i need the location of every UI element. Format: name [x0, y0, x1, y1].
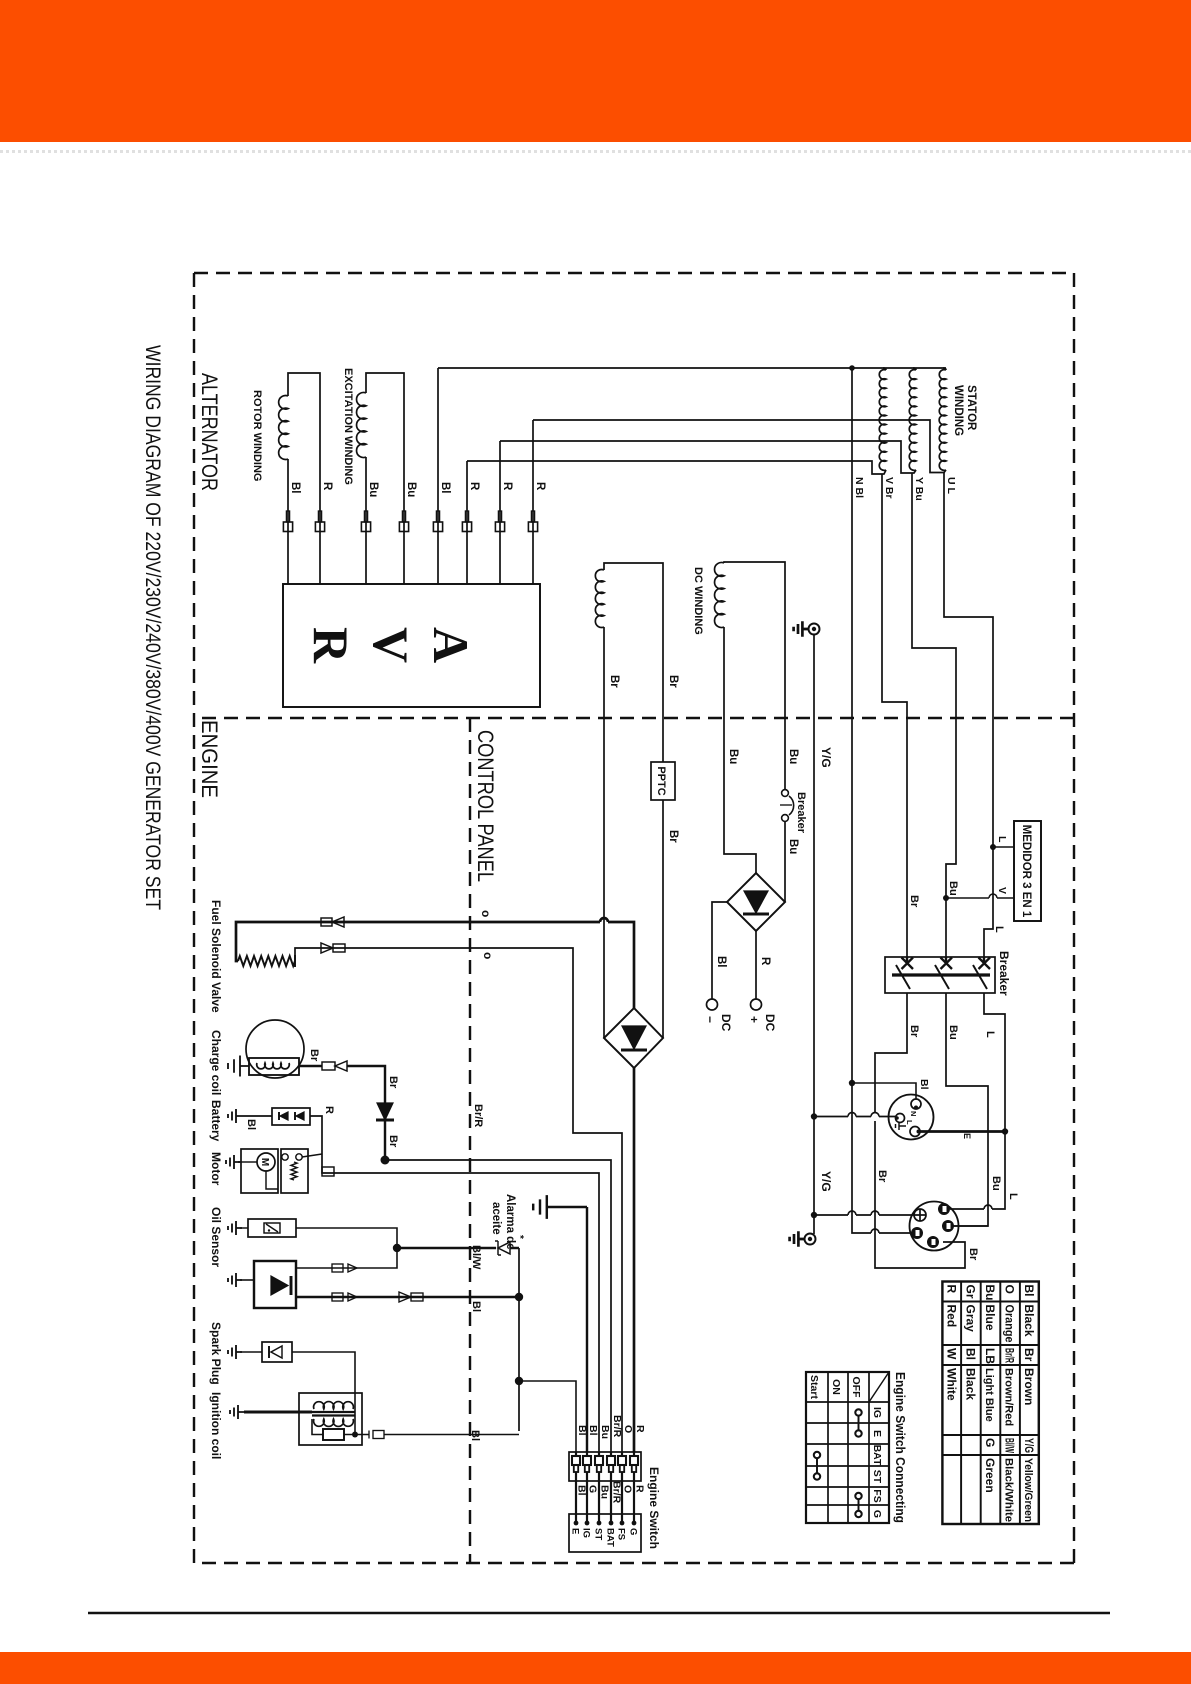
wire DC+ (R) [755, 931, 757, 999]
svg-text:Br: Br [667, 675, 679, 688]
svg-text:Black: Black [1022, 1305, 1036, 1337]
stator winding coil V (v=158) [909, 370, 916, 471]
wire: coil W sense tap to AVR (R v=607) [467, 461, 886, 474]
svg-text:Bl: Bl [439, 482, 451, 494]
terminal on AVR wire v=541 [531, 511, 534, 522]
wire Br: pole1 to 4-pin socket pin [875, 993, 965, 1268]
svg-text:U L: U L [945, 477, 957, 495]
ground terminal (top) [809, 624, 820, 635]
fuel solenoid valve coil [238, 956, 295, 966]
wire alert top to oil node [296, 1248, 397, 1268]
stator winding coil W (v=188) [879, 370, 886, 471]
terminal on AVR wire v=636 [436, 511, 439, 522]
svg-text:EXCITATION WINDING: EXCITATION WINDING [342, 368, 354, 485]
spark plug box [262, 1342, 292, 1362]
svg-text:WINDING: WINDING [952, 385, 964, 436]
junction dot neutral/N-line [849, 365, 855, 371]
svg-text:Y/G: Y/G [1022, 1438, 1036, 1453]
svg-text:R: R [468, 482, 480, 491]
svg-text:A: A [423, 627, 479, 663]
svg-text:Bu: Bu [599, 1485, 611, 1499]
svg-text:V: V [996, 887, 1008, 894]
link OFF IG-E [858, 1413, 860, 1434]
svg-text:L: L [905, 1120, 914, 1125]
wire AVR sense Bl v=636 [437, 368, 439, 584]
svg-text:aceite: aceite [490, 1202, 502, 1235]
svg-text:Gr: Gr [963, 1285, 977, 1299]
svg-text:Br/R: Br/R [611, 1415, 623, 1438]
svg-text:Bu: Bu [787, 839, 799, 854]
svg-text:O: O [1003, 1285, 1017, 1294]
pin E (middle) [896, 1114, 905, 1123]
wire AVR sense R v=607 [466, 461, 468, 584]
svg-text:M: M [259, 1158, 270, 1166]
svg-text:Bu: Bu [947, 881, 959, 896]
svg-text:ON: ON [830, 1379, 842, 1395]
svg-text:ALTERNATOR: ALTERNATOR [197, 373, 222, 491]
starter relay box [281, 1149, 308, 1193]
svg-text:E: E [871, 1430, 883, 1437]
svg-text:ST: ST [871, 1470, 883, 1484]
svg-text:ENGINE: ENGINE [197, 720, 222, 798]
svg-text:Br: Br [876, 1170, 888, 1183]
svg-text:L: L [984, 1031, 996, 1038]
orange header bar [0, 0, 1191, 142]
svg-text:WIRING DIAGRAM OF 220V/230V: WIRING DIAGRAM OF 220V/230V/240V/380V/40… [141, 345, 164, 910]
3-pin AC socket [889, 1095, 934, 1140]
pin 2 (N) [938, 1203, 950, 1215]
wire oil sensor to node [296, 1228, 397, 1248]
engine switch block 2 [569, 1514, 641, 1552]
svg-text:L: L [993, 926, 1005, 933]
svg-text:R: R [759, 957, 771, 966]
svg-text:FS: FS [871, 1489, 883, 1502]
DC winding [715, 563, 724, 628]
svg-text:Bu: Bu [727, 749, 739, 764]
pin 3 [942, 1220, 954, 1232]
junction dot N-line / 3-pin socket branch [849, 1080, 855, 1086]
wire Br/R to engine switch [385, 1160, 611, 1452]
terminal BAT [609, 1521, 614, 1526]
svg-text:R: R [534, 482, 546, 491]
svg-text:CONTROL PANEL: CONTROL PANEL [473, 730, 498, 882]
ground charge coil [228, 1056, 249, 1077]
junction dot Y/G to 4-pin socket [811, 1212, 817, 1218]
transformer core [312, 1411, 355, 1413]
svg-text:Bl/W: Bl/W [1003, 1438, 1017, 1453]
svg-text:Br: Br [608, 675, 620, 688]
wire Br from charge coil through diode to junction [299, 1066, 385, 1160]
svg-text:R: R [323, 1106, 335, 1114]
wire L to pin (thick) [920, 1130, 1005, 1133]
svg-text:Orange: Orange [1003, 1305, 1017, 1343]
op-amp AVR box [283, 584, 540, 707]
pin L [910, 1127, 920, 1137]
svg-text:Bu: Bu [787, 749, 799, 764]
wire Bu: pole2 to 4-pin socket pin [946, 993, 988, 1226]
svg-text:L: L [1007, 1193, 1019, 1200]
svg-text:MEDIDOR 3 EN 1: MEDIDOR 3 EN 1 [1020, 825, 1032, 918]
svg-text:G: G [983, 1438, 997, 1447]
ground terminal (bottom) [805, 1234, 816, 1245]
svg-text:E: E [962, 1133, 972, 1139]
svg-text:Motor: Motor [209, 1152, 223, 1186]
svg-text:Bu: Bu [599, 1425, 611, 1439]
svg-text:White: White [944, 1368, 958, 1401]
svg-text:Bu: Bu [983, 1285, 997, 1301]
svg-text:Y/G: Y/G [819, 1171, 833, 1192]
svg-text:V: V [363, 627, 419, 663]
junction dot Br [381, 1156, 390, 1165]
svg-text:Br/R: Br/R [472, 1104, 484, 1127]
svg-text:Brown: Brown [1022, 1368, 1036, 1405]
svg-text:Fuel Solenoid Valve: Fuel Solenoid Valve [209, 900, 223, 1013]
svg-text:Engine Switch: Engine Switch [647, 1467, 661, 1549]
svg-text:Brown/Red: Brown/Red [1003, 1368, 1015, 1426]
svg-text:Green: Green [983, 1458, 997, 1493]
ground oil alert [240, 1279, 254, 1281]
wires between connector blocks [633, 1481, 635, 1523]
svg-text:OFF: OFF [850, 1377, 862, 1399]
wire Br upper through PPTC to rectifier top corner [662, 800, 664, 1038]
svg-text:R: R [944, 1285, 958, 1294]
svg-text:E: E [570, 1528, 581, 1534]
svg-text:Light Blue: Light Blue [983, 1368, 995, 1422]
svg-text:Breaker: Breaker [997, 951, 1011, 996]
svg-text:Bl: Bl [470, 1301, 482, 1312]
ground oil sensor [240, 1227, 248, 1229]
wire R (DC out) to engine switch [633, 1068, 636, 1452]
svg-text:Y/G: Y/G [819, 747, 833, 768]
connector pair on row2 [333, 944, 345, 952]
svg-text:Bl: Bl [963, 1348, 977, 1360]
svg-text:Br: Br [1022, 1348, 1036, 1362]
svg-text:Bu: Bu [367, 482, 379, 497]
svg-text:Black: Black [963, 1368, 977, 1400]
wire node up through zener [397, 1247, 519, 1249]
svg-text:Bl/W: Bl/W [470, 1245, 482, 1270]
svg-text:Bl: Bl [1022, 1285, 1036, 1297]
svg-text:R: R [303, 627, 359, 664]
wire: coil U sense tap to AVR (R v=541) [533, 420, 946, 473]
svg-text:Bl: Bl [469, 1430, 481, 1441]
svg-text:N Bl: N Bl [853, 477, 865, 498]
svg-text:IG: IG [581, 1528, 592, 1538]
svg-text:Bu: Bu [947, 1025, 959, 1040]
excitation winding [357, 393, 366, 458]
section divider alternator/rest [194, 717, 1074, 719]
svg-text:R: R [501, 482, 513, 491]
svg-text:o: o [481, 952, 495, 959]
svg-text:−: − [703, 1016, 717, 1023]
wire Br lower: winding to rectifier bottom corner [603, 627, 605, 1038]
svg-text:V Br: V Br [883, 477, 895, 499]
breaker pole v=90 [983, 957, 985, 962]
terminal ST [597, 1521, 602, 1526]
svg-text:Bu: Bu [990, 1176, 1002, 1191]
breaker pole v=128 [945, 957, 947, 962]
starter motor box [241, 1149, 278, 1193]
charge coil flywheel [246, 1020, 304, 1078]
pin block1 Bl [575, 1452, 577, 1456]
section divider control-panel/engine [469, 718, 471, 1563]
svg-text:Black/White: Black/White [1003, 1458, 1015, 1522]
svg-text:Bl: Bl [715, 956, 727, 968]
svg-text:Bl: Bl [918, 1079, 930, 1090]
svg-text:ST: ST [593, 1528, 604, 1540]
wire to engine switch E (Bl) [519, 1381, 576, 1452]
wire alert bottom (Bl) to node dot2 [296, 1296, 519, 1298]
rotor winding [279, 396, 288, 460]
footer rule [88, 1612, 1110, 1614]
svg-text:FS: FS [616, 1528, 627, 1540]
pin block1 Bl [586, 1452, 588, 1456]
MEDIDOR terminal V stub (hops over L line) [946, 897, 1014, 899]
wire relay to R line [302, 1154, 322, 1157]
link OFF FS-G [858, 1496, 860, 1514]
oil alert diode box [254, 1261, 296, 1308]
PPTC resistor box [651, 762, 675, 800]
svg-text:STATOR: STATOR [965, 385, 977, 431]
svg-text:+: + [747, 1016, 761, 1023]
junction dot oil node [393, 1244, 401, 1252]
ground motor [241, 1161, 257, 1163]
pin block1 O [621, 1452, 623, 1456]
junction dot L / 3-pin socket [1002, 1128, 1008, 1134]
svg-text:Alarma de: Alarma de [504, 1194, 516, 1250]
pin 5 [911, 1227, 923, 1239]
svg-text:Bu: Bu [405, 482, 417, 497]
svg-text:LB: LB [983, 1348, 997, 1364]
wire earth branch to 3-pin socket (hops over Br & N lines) [814, 1116, 897, 1118]
diode bridge rectifier (charge circuit) [604, 1008, 663, 1068]
charge winding [595, 570, 604, 628]
svg-text:Br: Br [308, 1049, 320, 1062]
pin 4 [927, 1236, 939, 1248]
pin N [911, 1099, 921, 1109]
terminal G [632, 1521, 637, 1526]
svg-text:Start: Start [808, 1375, 820, 1399]
wire R battery to engine switch [310, 1116, 599, 1452]
pin block1 Bu [598, 1452, 600, 1456]
DC breaker (small switch) [782, 790, 789, 797]
terminal on AVR wire v=607 [465, 511, 468, 522]
svg-text:Br: Br [967, 1248, 979, 1261]
wire pin3 up to Bu line [954, 1225, 988, 1227]
junction dot alarm branch [515, 1293, 523, 1301]
svg-text:R: R [634, 1485, 646, 1493]
wire Bl panel ground to engine switch [586, 1207, 588, 1452]
primary ground (thick) [244, 1411, 312, 1414]
MEDIDOR 3 EN 1 meter box [1014, 821, 1041, 921]
orange footer bar [0, 1652, 1191, 1684]
wire earth branch to 4-pin socket [814, 1214, 914, 1216]
wire ignition out (Bl) [355, 1434, 519, 1436]
terminal FS [620, 1521, 625, 1526]
junction dot switch branch [515, 1377, 523, 1385]
link Start BAT-ST [816, 1455, 818, 1477]
pin block1 Br/R [610, 1452, 612, 1456]
wire AVR sense R v=574 [499, 441, 501, 584]
svg-text:Breaker: Breaker [795, 792, 807, 834]
svg-text:DC WINDING: DC WINDING [692, 567, 704, 635]
svg-text:DC: DC [763, 1014, 777, 1032]
MEDIDOR terminal L stub [993, 846, 1014, 848]
ground battery [242, 1115, 272, 1117]
svg-text:Br: Br [387, 1135, 399, 1148]
svg-text:Br/R: Br/R [1003, 1348, 1017, 1363]
svg-text:BAT: BAT [871, 1445, 883, 1466]
svg-text:G: G [628, 1528, 639, 1535]
oil sensor box [248, 1219, 296, 1237]
ground spark plug [240, 1351, 262, 1353]
wire: phase V output to breaker pole 2 (junction dot to MEDIDOR V) [912, 473, 956, 957]
ignition coil box [299, 1393, 362, 1445]
wire: neutral N (Bl) long run to sockets [852, 368, 911, 1233]
svg-text:Br: Br [667, 830, 679, 843]
breaker pole v=167 [906, 957, 908, 962]
primary resistor [323, 1429, 344, 1440]
svg-text:o: o [479, 910, 493, 917]
wire L: pole3 to sockets [984, 993, 1005, 1209]
wire oil node run to ignition/switch [518, 1248, 520, 1431]
terminal on AVR wire v=574 [498, 511, 501, 522]
breaker tie bar [892, 973, 990, 976]
wire: phase W output to breaker pole 1 [882, 474, 907, 957]
svg-text:Bl: Bl [289, 482, 301, 494]
4-pin 3-phase socket [910, 1202, 959, 1251]
terminal E [574, 1521, 579, 1526]
svg-text:Spark Plug: Spark Plug [209, 1322, 223, 1385]
wire O (row1) valve to rectifier corner [236, 922, 634, 1008]
junction dot Y/G to 3-pin socket [811, 1113, 817, 1119]
svg-text:Red: Red [944, 1305, 958, 1328]
svg-text:L: L [996, 836, 1008, 843]
svg-text:Engine Switch Connecting: Engine Switch Connecting [893, 1372, 907, 1523]
svg-text:Oil Sensor: Oil Sensor [209, 1207, 223, 1267]
wire O (row2) valve to engine switch O [295, 948, 622, 1452]
svg-text:ROTOR WINDING: ROTOR WINDING [251, 390, 263, 481]
diode bridge rectifier (DC output) [727, 873, 785, 931]
svg-text:Br: Br [908, 895, 920, 908]
svg-text:N: N [909, 1111, 918, 1116]
wire DC- (Bl) [712, 902, 727, 999]
svg-text:Charge coil: Charge coil [209, 1030, 223, 1095]
svg-text:Bl: Bl [245, 1119, 257, 1130]
svg-text:Yellow/Green: Yellow/Green [1022, 1458, 1034, 1522]
scan artifact dotted line [0, 150, 1191, 153]
svg-text:Gray: Gray [963, 1305, 977, 1333]
breaker (3-pole) box [885, 957, 995, 993]
svg-text:BAT: BAT [605, 1528, 616, 1547]
svg-text:PPTC: PPTC [655, 766, 667, 795]
svg-text:Br: Br [387, 1076, 399, 1089]
pin 1 (earth) [914, 1209, 926, 1221]
wire AVR sense R v=541 [532, 420, 534, 584]
wire: phase U output to breaker pole 3 [944, 473, 993, 958]
svg-text:W: W [944, 1348, 958, 1360]
pin block1 R [633, 1452, 635, 1456]
diode (charge) [377, 1103, 393, 1120]
svg-text:IG: IG [871, 1407, 883, 1418]
stator winding coil U (phase line v=128) [939, 370, 946, 471]
svg-text:R: R [634, 1425, 646, 1433]
svg-text:Y Bu: Y Bu [913, 477, 925, 501]
svg-text:R: R [321, 482, 333, 491]
wire Y/G earth bus [813, 634, 815, 1234]
svg-text:Bl: Bl [576, 1485, 588, 1496]
svg-text:Br: Br [908, 1025, 920, 1038]
svg-text:G: G [871, 1510, 883, 1518]
svg-text:Br/R: Br/R [611, 1481, 623, 1504]
dashed border frame [1073, 273, 1075, 1563]
engine switch connector block 1 [569, 1452, 641, 1481]
wire: coil V sense tap to AVR (R v=574) [500, 441, 916, 473]
wire spark plug to ignition coil [292, 1352, 355, 1435]
svg-text:Ignition coil: Ignition coil [209, 1392, 223, 1459]
wire: neutral bus (connects three coil left ends to AVR Bl wire) [438, 367, 946, 369]
wire Bl to pin N [855, 1083, 916, 1099]
zener diode (oil alarm) [495, 1241, 510, 1255]
connector pair on row1 [321, 918, 332, 926]
legend wire color table [942, 1282, 1038, 1525]
battery isolator box [272, 1108, 310, 1125]
ground (control panel, engine switch E) [557, 1206, 587, 1208]
svg-text:Bl: Bl [576, 1425, 588, 1436]
svg-text:Blue: Blue [983, 1305, 997, 1331]
svg-text:DC: DC [719, 1014, 733, 1032]
svg-text:Battery: Battery [209, 1100, 223, 1142]
terminal IG [585, 1521, 590, 1526]
